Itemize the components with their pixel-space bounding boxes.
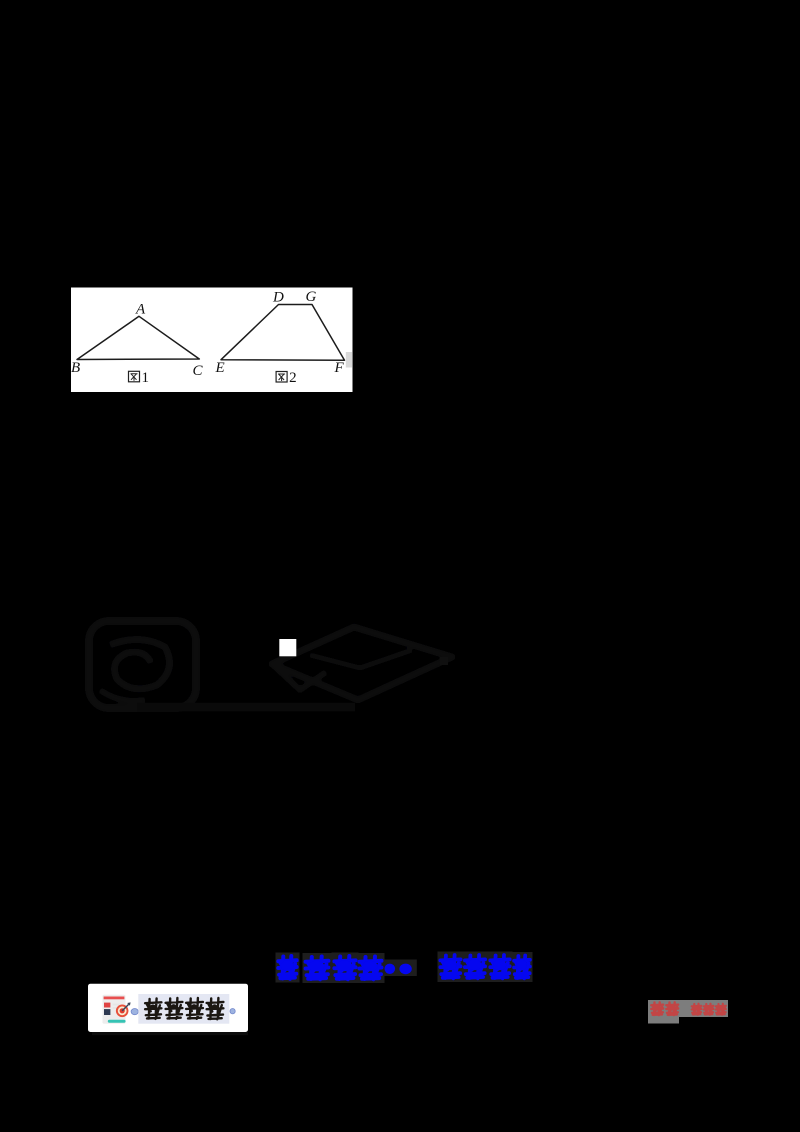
- triangle ABC (fig 1): [77, 316, 199, 359]
- blue calligraphy heading, group 1: [276, 953, 417, 984]
- svg-text:E: E: [215, 360, 225, 376]
- svg-text:C: C: [193, 363, 204, 379]
- lavender title box: [138, 994, 229, 1024]
- faint shadow under logo card: [92, 1032, 248, 1035]
- logo white background card: [88, 984, 248, 1032]
- white square: [279, 639, 296, 656]
- faint underline bar: [137, 703, 355, 712]
- periwinkle dot right: [230, 1009, 235, 1014]
- logo: document icon: [103, 995, 131, 1024]
- faint icon 2: arrow shape: [272, 627, 452, 700]
- trapezoid DEFG (fig 2): [221, 305, 345, 361]
- caption 图2: [276, 370, 297, 386]
- svg-text:1: 1: [142, 370, 150, 386]
- svg-text:D: D: [272, 289, 284, 305]
- faint icon 1: rounded rect with swirl: [89, 621, 196, 708]
- caption 图1: [129, 370, 150, 386]
- white figure panel: [71, 288, 353, 393]
- periwinkle dot left: [131, 1009, 138, 1015]
- svg-text:G: G: [306, 289, 317, 305]
- black brush title 终极密押: [145, 998, 223, 1019]
- svg-text:F: F: [334, 360, 345, 376]
- bullseye: [116, 1005, 129, 1018]
- faint gray marker at F: [346, 352, 352, 368]
- svg-text:B: B: [71, 360, 80, 376]
- red highlighted text: [648, 1000, 728, 1024]
- svg-text:2: 2: [289, 370, 297, 386]
- svg-text:A: A: [135, 302, 146, 318]
- small dark square: [440, 657, 448, 665]
